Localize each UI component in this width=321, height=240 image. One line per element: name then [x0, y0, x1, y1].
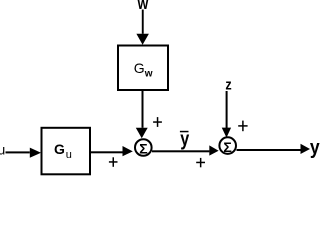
- arrowhead into sum1 left: [123, 146, 133, 156]
- wire sum1 to sum2: [152, 150, 209, 152]
- arrowhead into sum1 top: [136, 128, 148, 138]
- svg-text:G: G: [134, 60, 145, 76]
- arrowhead into sum2 top: [222, 128, 231, 138]
- node ybar label: [180, 131, 189, 133]
- plus sign sum1 left input: [109, 161, 118, 163]
- plus sign sum2 left input: [196, 162, 205, 164]
- wire Gw to sum1: [142, 91, 144, 128]
- wire u to Gu: [6, 151, 30, 153]
- wire z to sum2: [226, 91, 228, 128]
- arrowhead output y: [301, 144, 311, 154]
- wire w to Gw: [142, 10, 144, 34]
- summing junction sum1: [135, 139, 152, 156]
- arrowhead into Gu: [30, 148, 41, 158]
- wire Gu to sum1: [91, 151, 123, 153]
- wire sum2 to output y: [237, 149, 301, 151]
- block Gw: [118, 46, 168, 91]
- block Gu: [42, 128, 91, 175]
- svg-text:G: G: [54, 141, 65, 157]
- arrowhead into Gw: [136, 34, 149, 45]
- plus sign sum2 top input: [238, 125, 247, 127]
- plus sign sum1 top input: [153, 121, 162, 123]
- summing junction sum2: [219, 137, 236, 154]
- svg-text:Σ: Σ: [223, 139, 231, 155]
- svg-text:u: u: [0, 142, 5, 158]
- svg-text:y: y: [310, 137, 321, 159]
- arrowhead into sum2 left: [209, 145, 218, 155]
- svg-text:w: w: [144, 69, 153, 80]
- svg-text:y: y: [180, 129, 190, 151]
- svg-text:Σ: Σ: [139, 141, 147, 157]
- svg-text:u: u: [66, 149, 72, 161]
